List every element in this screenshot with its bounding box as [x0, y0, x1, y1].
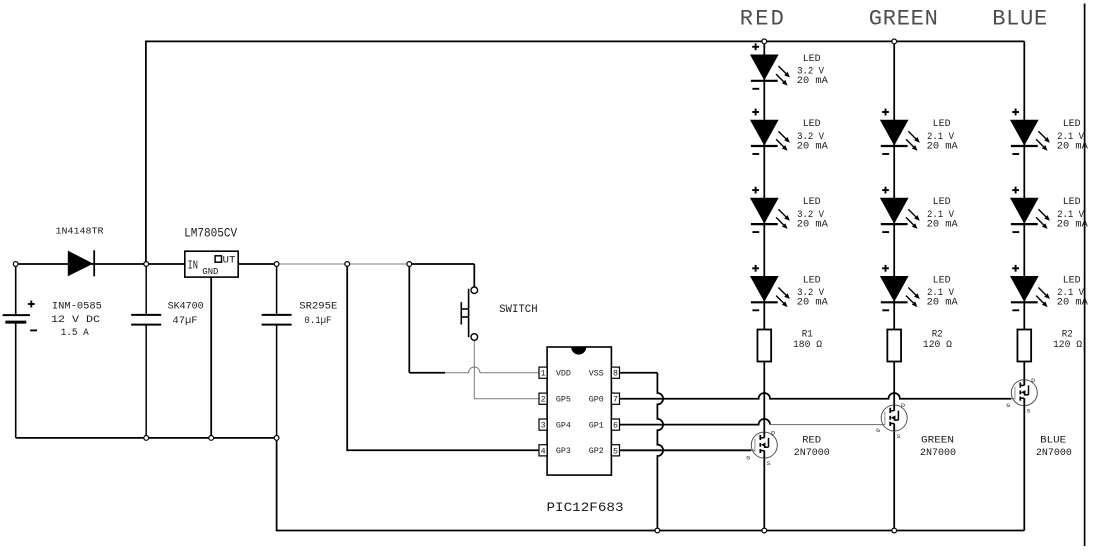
- svg-text:INM-0585: INM-0585: [52, 300, 102, 312]
- svg-text:BLUE: BLUE: [1040, 435, 1066, 447]
- svg-text:LED: LED: [803, 119, 821, 130]
- svg-text:GREEN: GREEN: [869, 7, 938, 32]
- svg-text:1: 1: [541, 370, 546, 379]
- svg-text:G: G: [746, 454, 750, 461]
- svg-text:VDD: VDD: [556, 370, 571, 379]
- svg-text:20 mA: 20 mA: [797, 141, 828, 152]
- svg-text:20 mA: 20 mA: [1057, 298, 1088, 309]
- svg-text:120 Ω: 120 Ω: [923, 340, 952, 351]
- svg-text:R1: R1: [802, 329, 813, 340]
- svg-text:3: 3: [541, 422, 546, 431]
- svg-text:LED: LED: [933, 197, 951, 208]
- svg-text:180 Ω: 180 Ω: [793, 340, 822, 351]
- svg-text:RED: RED: [802, 435, 821, 447]
- svg-text:2N7000: 2N7000: [794, 447, 830, 459]
- svg-text:2: 2: [541, 396, 546, 405]
- svg-text:1N4148TR: 1N4148TR: [56, 225, 104, 236]
- svg-text:LM7805CV: LM7805CV: [184, 227, 237, 241]
- svg-text:IN: IN: [187, 259, 198, 273]
- svg-text:UT: UT: [223, 255, 236, 266]
- svg-text:SK4700: SK4700: [168, 300, 204, 312]
- svg-text:GP2: GP2: [589, 447, 604, 456]
- svg-text:RED: RED: [740, 7, 784, 32]
- svg-text:SR295E: SR295E: [299, 300, 337, 312]
- svg-text:LED: LED: [1063, 197, 1081, 208]
- svg-text:SWITCH: SWITCH: [499, 304, 538, 316]
- svg-text:G: G: [876, 427, 880, 434]
- svg-text:LED: LED: [933, 119, 951, 130]
- svg-text:20 mA: 20 mA: [1057, 220, 1088, 231]
- svg-text:2N7000: 2N7000: [1036, 447, 1072, 459]
- svg-text:8: 8: [613, 370, 618, 379]
- svg-text:GP1: GP1: [589, 422, 604, 431]
- svg-text:5: 5: [613, 447, 618, 456]
- svg-text:20 mA: 20 mA: [1057, 141, 1088, 152]
- svg-text:12 V DC: 12 V DC: [51, 314, 100, 326]
- svg-text:LED: LED: [803, 275, 821, 286]
- svg-text:20 mA: 20 mA: [797, 220, 828, 231]
- svg-text:120 Ω: 120 Ω: [1053, 340, 1082, 351]
- svg-text:LED: LED: [1063, 275, 1081, 286]
- svg-text:VSS: VSS: [589, 370, 604, 379]
- svg-text:GP3: GP3: [556, 447, 571, 456]
- svg-text:20 mA: 20 mA: [797, 298, 828, 309]
- svg-text:2N7000: 2N7000: [920, 447, 956, 459]
- svg-text:G: G: [1006, 402, 1010, 409]
- svg-text:4: 4: [541, 447, 546, 456]
- svg-text:GP4: GP4: [556, 422, 571, 431]
- svg-text:LED: LED: [803, 54, 821, 65]
- svg-text:GP0: GP0: [589, 396, 604, 405]
- svg-text:20 mA: 20 mA: [927, 220, 958, 231]
- svg-text:GND: GND: [202, 266, 218, 277]
- svg-text:0.1µF: 0.1µF: [304, 315, 331, 327]
- svg-text:20 mA: 20 mA: [927, 141, 958, 152]
- svg-text:20 mA: 20 mA: [927, 298, 958, 309]
- svg-text:6: 6: [613, 422, 618, 431]
- svg-text:LED: LED: [933, 275, 951, 286]
- svg-text:20 mA: 20 mA: [797, 76, 828, 87]
- svg-text:LED: LED: [803, 197, 821, 208]
- svg-text:GREEN: GREEN: [921, 435, 954, 447]
- svg-text:R2: R2: [932, 329, 943, 340]
- svg-text:BLUE: BLUE: [992, 7, 1047, 32]
- svg-text:LED: LED: [1063, 119, 1081, 130]
- svg-text:1.5 A: 1.5 A: [61, 327, 90, 339]
- svg-text:7: 7: [613, 396, 618, 405]
- svg-text:PIC12F683: PIC12F683: [547, 501, 624, 515]
- svg-text:R2: R2: [1062, 329, 1073, 340]
- svg-text:GP5: GP5: [556, 396, 571, 405]
- svg-text:47µF: 47µF: [173, 315, 198, 327]
